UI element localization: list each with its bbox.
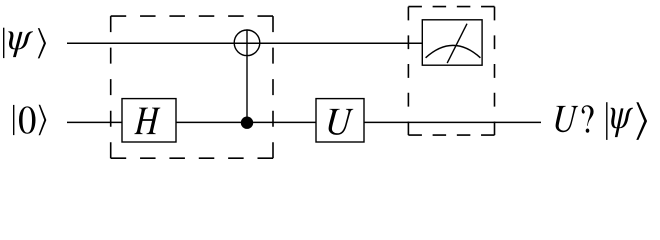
- psi glyph of output: [611, 108, 633, 137]
- node: output label U?|psi>: [556, 102, 647, 140]
- gate H (Hadamard) on bottom wire: [122, 99, 176, 142]
- letter U of output: [556, 106, 579, 132]
- CNOT target oplus on top wire: [234, 30, 260, 56]
- dashed group box around H and CNOT (entangling stage): [111, 16, 273, 158]
- meter (measurement gauge) on top wire: [422, 20, 482, 65]
- dashed top edge: [111, 15, 273, 17]
- CNOT control dot on bottom wire: [241, 117, 253, 129]
- dashed left edge: [407, 7, 409, 136]
- right angle bracket of |0>: [39, 105, 47, 135]
- gate U on bottom wire: [316, 99, 364, 142]
- node: input state label |0> on bottom wire: [14, 105, 46, 135]
- psi glyph: [8, 31, 33, 57]
- ket bar of |psi>: [3, 28, 5, 58]
- dashed bottom edge: [408, 134, 494, 136]
- ket bar of output |psi>: [606, 102, 608, 140]
- zero glyph: [19, 106, 35, 133]
- meter needle: [447, 24, 467, 63]
- question mark: [582, 105, 594, 133]
- dashed left edge: [110, 16, 112, 158]
- ket bar of |0>: [13, 105, 15, 135]
- wire: top qubit line: [67, 42, 423, 44]
- wire: bottom qubit line: [67, 121, 541, 123]
- meter box: [422, 20, 482, 65]
- dashed right edge: [494, 7, 496, 136]
- dashed bottom edge: [111, 157, 273, 159]
- right angle bracket of output |psi>: [636, 102, 647, 140]
- letter H: [134, 108, 160, 135]
- wire: CNOT vertical connector: [246, 29, 248, 122]
- dashed group box around measurement stage: [408, 7, 494, 136]
- right angle bracket of |psi>: [38, 28, 46, 58]
- meter dial arc: [426, 45, 481, 57]
- letter U: [329, 109, 354, 135]
- dashed right edge: [272, 16, 274, 158]
- node: input state label |psi> on top wire: [4, 28, 46, 59]
- dashed top edge: [408, 6, 494, 8]
